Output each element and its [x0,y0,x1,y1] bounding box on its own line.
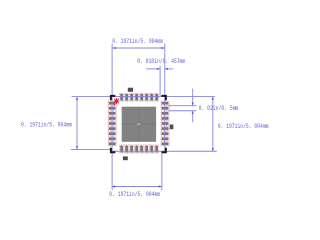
svg-text:0. 1971in/5. 004mm: 0. 1971in/5. 004mm [112,38,163,45]
svg-text:0. 1971in/5. 004mm: 0. 1971in/5. 004mm [218,123,269,130]
svg-text:0. 02in/0. 5mm: 0. 02in/0. 5mm [199,105,239,112]
svg-text:0. 018in/0. 457mm: 0. 018in/0. 457mm [137,58,185,65]
svg-text:0. 1971in/5. 004mm: 0. 1971in/5. 004mm [21,121,72,128]
svg-text:0. 1971in/5. 004mm: 0. 1971in/5. 004mm [109,191,160,198]
